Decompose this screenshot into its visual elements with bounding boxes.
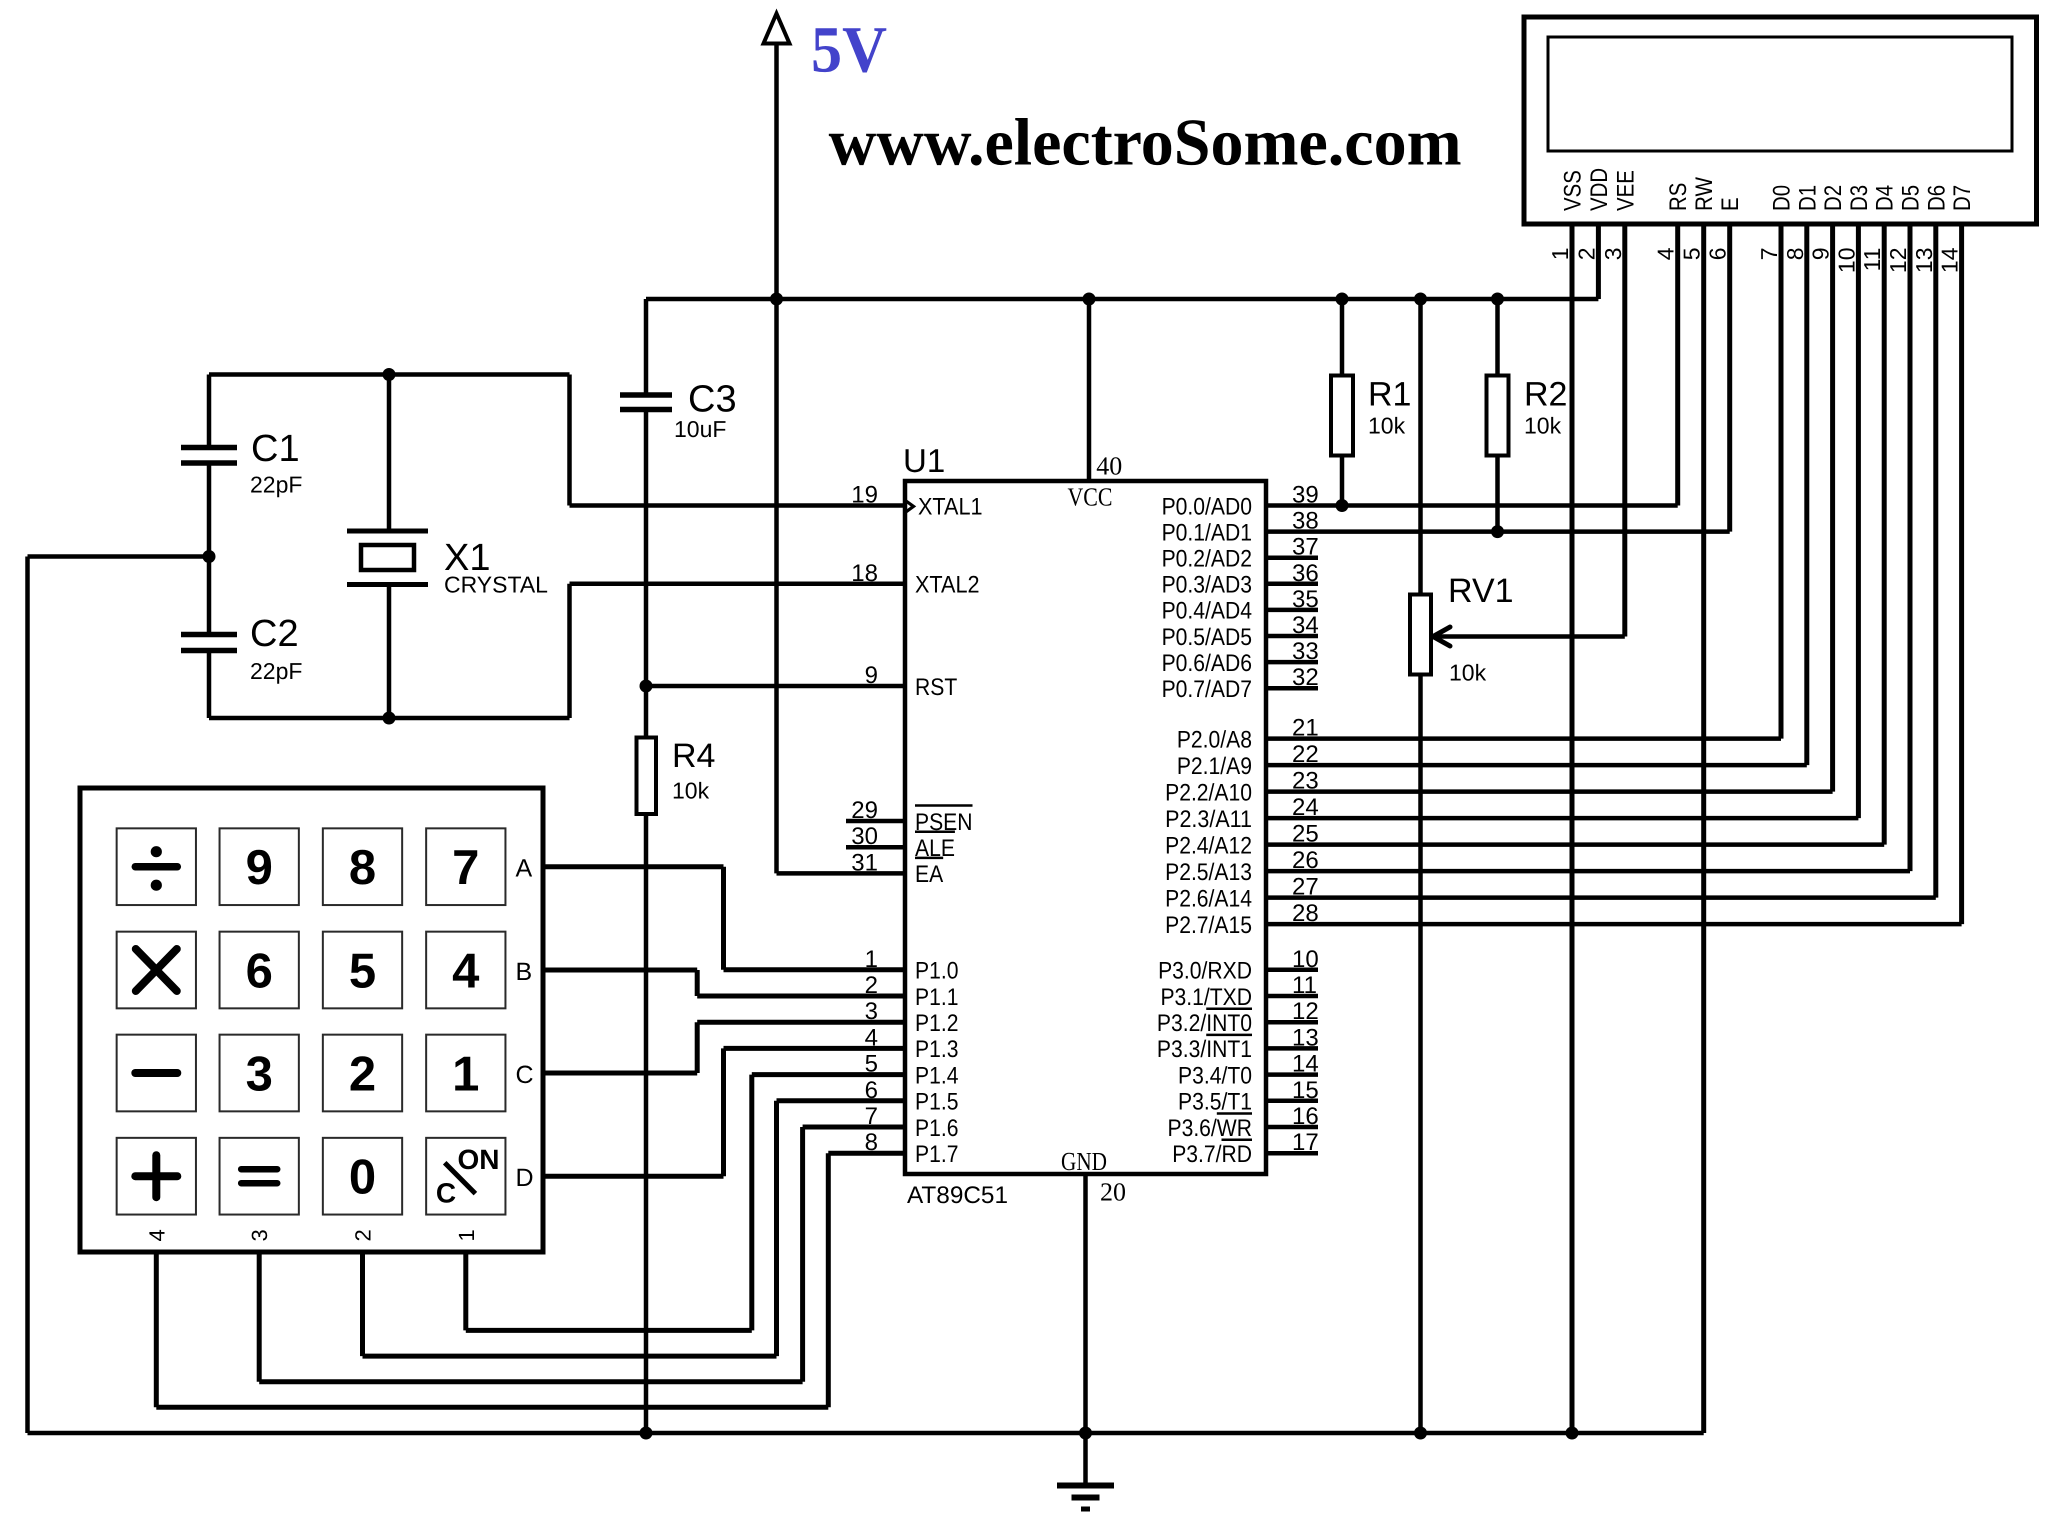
svg-text:30: 30 [851, 823, 878, 850]
svg-text:D4: D4 [1872, 185, 1899, 211]
svg-text:VDD: VDD [1586, 168, 1613, 211]
svg-text:39: 39 [1292, 482, 1319, 509]
svg-text:4: 4 [1653, 247, 1679, 260]
svg-text:P2.2/A10: P2.2/A10 [1165, 779, 1252, 806]
svg-text:ON: ON [458, 1144, 500, 1175]
svg-text:18: 18 [851, 560, 878, 587]
svg-text:10k: 10k [1524, 413, 1562, 439]
svg-text:P2.6/A14: P2.6/A14 [1165, 885, 1252, 912]
svg-text:2: 2 [351, 1229, 376, 1241]
svg-text:12: 12 [1292, 998, 1319, 1025]
svg-text:4: 4 [865, 1024, 878, 1051]
svg-text:P2.4/A12: P2.4/A12 [1165, 832, 1252, 859]
svg-text:P3.6/WR: P3.6/WR [1167, 1115, 1252, 1142]
svg-text:2: 2 [349, 1048, 376, 1102]
svg-text:14: 14 [1937, 247, 1963, 273]
svg-text:32: 32 [1292, 664, 1319, 691]
svg-text:6: 6 [246, 945, 273, 999]
svg-text:RS: RS [1665, 183, 1692, 211]
svg-text:1: 1 [454, 1229, 479, 1241]
svg-text:5: 5 [1679, 248, 1705, 261]
svg-text:13: 13 [1911, 248, 1937, 274]
svg-text:P0.5/AD5: P0.5/AD5 [1162, 624, 1252, 651]
svg-text:A: A [516, 855, 533, 883]
svg-text:36: 36 [1292, 560, 1319, 587]
svg-text:RST: RST [915, 674, 958, 701]
svg-text:RW: RW [1691, 177, 1718, 211]
svg-text:P0.4/AD4: P0.4/AD4 [1162, 598, 1252, 625]
svg-text:XTAL2: XTAL2 [915, 572, 980, 599]
svg-text:P2.1/A9: P2.1/A9 [1177, 753, 1252, 780]
svg-text:D7: D7 [1949, 185, 1976, 211]
svg-text:10: 10 [1833, 248, 1859, 274]
svg-text:C1: C1 [251, 428, 300, 470]
svg-text:10: 10 [1292, 946, 1319, 973]
svg-text:24: 24 [1292, 794, 1319, 821]
svg-text:P3.1/TXD: P3.1/TXD [1160, 984, 1252, 1011]
svg-text:7: 7 [1756, 248, 1782, 261]
svg-text:22pF: 22pF [250, 472, 302, 498]
svg-text:C2: C2 [250, 613, 299, 655]
svg-text:22pF: 22pF [250, 658, 302, 684]
svg-text:3: 3 [247, 1229, 272, 1241]
svg-text:5: 5 [349, 945, 376, 999]
svg-text:7: 7 [452, 841, 479, 895]
svg-text:2: 2 [865, 972, 878, 999]
svg-text:P3.5/T1: P3.5/T1 [1178, 1089, 1252, 1116]
svg-text:C3: C3 [688, 379, 737, 421]
svg-text:20: 20 [1100, 1177, 1126, 1206]
svg-text:9: 9 [246, 841, 273, 895]
svg-text:8: 8 [349, 841, 376, 895]
svg-text:29: 29 [851, 797, 878, 824]
svg-text:19: 19 [851, 482, 878, 509]
svg-text:13: 13 [1292, 1024, 1319, 1051]
svg-text:P1.4: P1.4 [915, 1062, 958, 1089]
svg-text:14: 14 [1292, 1051, 1319, 1078]
svg-text:3: 3 [865, 998, 878, 1025]
svg-text:VEE: VEE [1612, 170, 1639, 211]
svg-text:15: 15 [1292, 1077, 1319, 1104]
svg-text:U1: U1 [903, 442, 945, 479]
svg-text:D6: D6 [1923, 185, 1950, 211]
svg-text:12: 12 [1885, 248, 1911, 274]
svg-text:3: 3 [1600, 248, 1626, 261]
svg-text:P3.3/INT1: P3.3/INT1 [1157, 1036, 1252, 1063]
svg-text:www.electroSome.com: www.electroSome.com [829, 106, 1462, 180]
svg-text:P0.3/AD3: P0.3/AD3 [1162, 572, 1252, 599]
svg-text:5: 5 [865, 1051, 878, 1078]
svg-text:33: 33 [1292, 638, 1319, 665]
svg-text:P0.2/AD2: P0.2/AD2 [1162, 546, 1252, 573]
svg-text:3: 3 [246, 1048, 273, 1102]
svg-text:P1.5: P1.5 [915, 1089, 958, 1116]
svg-text:1: 1 [452, 1048, 479, 1102]
svg-text:5V: 5V [811, 14, 887, 87]
svg-text:P3.2/INT0: P3.2/INT0 [1157, 1010, 1252, 1037]
svg-text:P1.7: P1.7 [915, 1141, 958, 1168]
svg-text:25: 25 [1292, 821, 1319, 848]
svg-text:8: 8 [865, 1129, 878, 1156]
svg-text:P2.0/A8: P2.0/A8 [1177, 726, 1252, 753]
svg-text:8: 8 [1782, 248, 1808, 261]
svg-text:B: B [516, 958, 533, 986]
svg-text:7: 7 [865, 1103, 878, 1130]
svg-text:E: E [1717, 197, 1744, 211]
svg-text:10uF: 10uF [674, 416, 726, 442]
svg-text:9: 9 [865, 662, 878, 689]
svg-text:22: 22 [1292, 741, 1319, 768]
svg-text:P1.1: P1.1 [915, 984, 958, 1011]
svg-text:P1.2: P1.2 [915, 1010, 958, 1037]
svg-text:9: 9 [1808, 248, 1834, 261]
svg-text:40: 40 [1096, 451, 1122, 480]
svg-text:35: 35 [1292, 586, 1319, 613]
svg-text:1: 1 [865, 946, 878, 973]
svg-text:4: 4 [452, 945, 479, 999]
svg-text:6: 6 [1705, 248, 1731, 261]
svg-text:D5: D5 [1898, 185, 1925, 211]
svg-text:26: 26 [1292, 847, 1319, 874]
svg-text:4: 4 [144, 1229, 169, 1241]
svg-text:P2.5/A13: P2.5/A13 [1165, 859, 1252, 886]
svg-text:VSS: VSS [1560, 170, 1587, 211]
svg-text:23: 23 [1292, 768, 1319, 795]
svg-text:R1: R1 [1368, 376, 1411, 414]
svg-text:D3: D3 [1846, 185, 1873, 211]
svg-text:VCC: VCC [1068, 482, 1113, 511]
svg-text:EA: EA [915, 861, 943, 888]
svg-text:AT89C51: AT89C51 [907, 1182, 1008, 1209]
svg-text:D2: D2 [1820, 185, 1847, 211]
svg-text:34: 34 [1292, 612, 1319, 639]
svg-text:P1.3: P1.3 [915, 1036, 958, 1063]
svg-text:C: C [436, 1178, 456, 1209]
svg-text:RV1: RV1 [1448, 572, 1514, 610]
svg-text:16: 16 [1292, 1103, 1319, 1130]
svg-text:P0.7/AD7: P0.7/AD7 [1162, 676, 1252, 703]
svg-text:17: 17 [1292, 1129, 1319, 1156]
svg-text:10k: 10k [1449, 660, 1487, 686]
svg-text:11: 11 [1292, 972, 1317, 999]
svg-text:31: 31 [851, 849, 878, 876]
svg-text:R4: R4 [672, 737, 715, 775]
svg-text:P3.0/RXD: P3.0/RXD [1158, 958, 1252, 985]
svg-text:XTAL1: XTAL1 [918, 493, 983, 520]
svg-text:P3.7/RD: P3.7/RD [1172, 1141, 1252, 1168]
svg-text:P2.3/A11: P2.3/A11 [1165, 806, 1252, 833]
svg-text:10k: 10k [672, 778, 710, 804]
svg-text:P0.0/AD0: P0.0/AD0 [1162, 493, 1252, 520]
svg-text:P1.0: P1.0 [915, 958, 958, 985]
svg-text:21: 21 [1292, 715, 1319, 742]
svg-text:37: 37 [1292, 534, 1319, 561]
svg-text:27: 27 [1292, 874, 1319, 901]
svg-text:R2: R2 [1524, 376, 1567, 414]
svg-text:D0: D0 [1769, 185, 1796, 211]
svg-text:P2.7/A15: P2.7/A15 [1165, 912, 1252, 939]
svg-text:10k: 10k [1368, 413, 1406, 439]
svg-text:0: 0 [349, 1151, 376, 1205]
svg-text:GND: GND [1061, 1147, 1107, 1176]
svg-text:D1: D1 [1794, 185, 1821, 211]
svg-text:1: 1 [1547, 248, 1573, 261]
svg-text:11: 11 [1859, 248, 1885, 272]
svg-text:C: C [516, 1061, 534, 1089]
svg-text:2: 2 [1573, 248, 1599, 261]
svg-text:6: 6 [865, 1077, 878, 1104]
svg-text:38: 38 [1292, 508, 1319, 535]
svg-text:P0.1/AD1: P0.1/AD1 [1162, 519, 1252, 546]
svg-text:P3.4/T0: P3.4/T0 [1178, 1062, 1252, 1089]
svg-text:P0.6/AD6: P0.6/AD6 [1162, 650, 1252, 677]
svg-text:28: 28 [1292, 900, 1319, 927]
svg-text:P1.6: P1.6 [915, 1115, 958, 1142]
svg-text:CRYSTAL: CRYSTAL [444, 572, 548, 598]
svg-text:D: D [516, 1164, 534, 1192]
